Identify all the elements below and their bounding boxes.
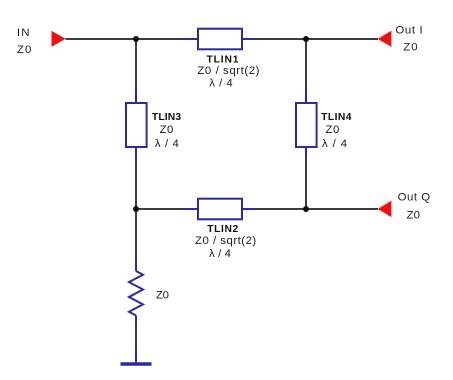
svg-text:λ / 4: λ / 4 <box>322 138 347 150</box>
svg-text:TLIN4: TLIN4 <box>321 112 352 123</box>
svg-text:λ / 4: λ / 4 <box>209 248 231 260</box>
svg-text:Z0: Z0 <box>160 124 174 136</box>
svg-text:TLIN1: TLIN1 <box>207 54 239 65</box>
svg-text:IN: IN <box>17 27 30 39</box>
svg-text:Z0: Z0 <box>156 290 169 302</box>
svg-text:Z0 / sqrt(2): Z0 / sqrt(2) <box>195 235 256 247</box>
svg-text:TLIN2: TLIN2 <box>207 224 238 235</box>
svg-text:Z0: Z0 <box>406 210 420 222</box>
svg-text:Out Q: Out Q <box>398 192 431 204</box>
svg-text:TLIN3: TLIN3 <box>152 112 181 123</box>
svg-text:λ / 4: λ / 4 <box>155 138 179 150</box>
svg-text:λ / 4: λ / 4 <box>209 77 233 89</box>
svg-text:Z0: Z0 <box>403 42 417 54</box>
svg-text:Z0: Z0 <box>17 44 31 56</box>
svg-text:Z0: Z0 <box>326 124 340 136</box>
svg-text:Out I: Out I <box>395 24 422 36</box>
svg-text:Z0 / sqrt(2): Z0 / sqrt(2) <box>197 65 259 77</box>
